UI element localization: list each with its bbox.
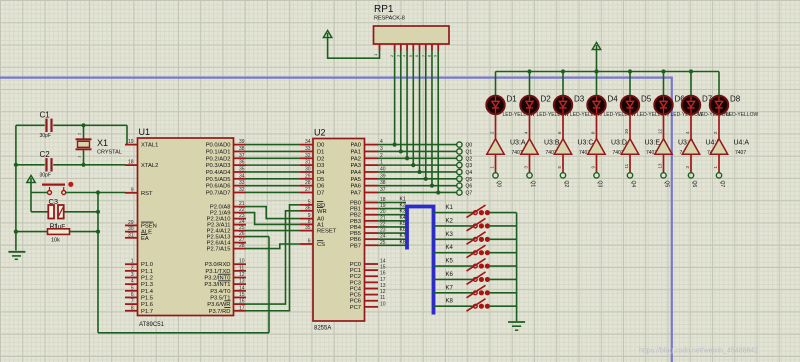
svg-text:D1: D1 xyxy=(507,95,518,104)
node Q6 terminal xyxy=(457,183,473,190)
node R1 junctions xyxy=(14,230,100,234)
svg-text:19: 19 xyxy=(128,139,134,145)
svg-text:P2.7/A15: P2.7/A15 xyxy=(207,247,231,253)
buffer U3:F 7407 xyxy=(655,114,693,172)
svg-text:U3:D: U3:D xyxy=(611,140,627,147)
svg-text:D3: D3 xyxy=(574,95,585,104)
buffer U3:A 7407 xyxy=(487,114,526,172)
svg-text:30: 30 xyxy=(305,166,311,172)
svg-text:39: 39 xyxy=(239,139,245,145)
crystal X1 xyxy=(76,125,122,165)
svg-text:P0.6/AD6: P0.6/AD6 xyxy=(206,184,231,190)
svg-text:2: 2 xyxy=(390,55,394,57)
node C2-X1 junction xyxy=(14,163,86,167)
svg-text:1: 1 xyxy=(713,166,718,169)
svg-text:P3.3/INT1: P3.3/INT1 xyxy=(204,282,230,288)
svg-text:U3:A: U3:A xyxy=(510,140,526,147)
wire C1 to XTAL1 xyxy=(126,125,128,144)
svg-text:A1: A1 xyxy=(317,222,324,228)
svg-text:12: 12 xyxy=(657,128,662,134)
svg-text:PC2: PC2 xyxy=(350,274,361,280)
svg-text:11: 11 xyxy=(239,265,244,271)
svg-text:C2: C2 xyxy=(40,150,51,159)
svg-text:Q0: Q0 xyxy=(495,181,501,188)
svg-text:RESET: RESET xyxy=(317,229,337,235)
svg-text:28: 28 xyxy=(305,180,311,186)
svg-text:P1.2: P1.2 xyxy=(141,276,153,282)
svg-text:XTAL1: XTAL1 xyxy=(141,143,158,149)
svg-text:17: 17 xyxy=(380,277,386,283)
svg-text:PB2: PB2 xyxy=(350,213,361,219)
node RST junction xyxy=(96,190,100,194)
svg-text:D5: D5 xyxy=(641,95,652,104)
svg-text:P1.3: P1.3 xyxy=(141,282,153,288)
svg-text:EA: EA xyxy=(141,236,149,242)
LED D7 xyxy=(682,72,731,118)
svg-text:PB0: PB0 xyxy=(350,201,361,207)
svg-text:https://blog.csdn.net/weixin_4: https://blog.csdn.net/weixin_45488842 xyxy=(639,348,758,355)
switch K5 xyxy=(434,259,517,272)
svg-text:PC1: PC1 xyxy=(350,268,361,274)
svg-text:PC3: PC3 xyxy=(350,280,361,286)
svg-text:PB4: PB4 xyxy=(350,225,362,231)
svg-text:14: 14 xyxy=(380,259,386,265)
svg-text:11: 11 xyxy=(380,295,385,301)
node Q1 output terminal xyxy=(527,173,536,188)
svg-text:U1: U1 xyxy=(139,127,151,137)
node Q1 terminal xyxy=(457,149,473,156)
svg-text:1: 1 xyxy=(77,155,82,158)
bus main horizontal+vertical xyxy=(0,78,672,362)
buffer U4:B 7407 xyxy=(682,114,721,172)
svg-text:Q5: Q5 xyxy=(466,177,473,183)
svg-text:6: 6 xyxy=(308,239,311,245)
svg-text:2: 2 xyxy=(713,131,718,134)
svg-text:K1: K1 xyxy=(446,205,454,211)
svg-text:5: 5 xyxy=(409,55,413,57)
svg-text:6: 6 xyxy=(131,292,134,298)
node Q5 output terminal xyxy=(661,173,670,188)
svg-text:38: 38 xyxy=(239,146,245,152)
node Q4 output terminal xyxy=(627,173,636,188)
node C1-X1 junction xyxy=(81,123,85,127)
svg-text:31: 31 xyxy=(305,160,311,166)
svg-text:30pF: 30pF xyxy=(40,133,51,139)
svg-text:37: 37 xyxy=(239,153,245,159)
svg-text:K6: K6 xyxy=(400,227,406,233)
svg-text:35: 35 xyxy=(239,166,245,172)
LED D5 xyxy=(621,72,670,118)
svg-text:P0.1/AD1: P0.1/AD1 xyxy=(206,149,231,155)
svg-text:U2: U2 xyxy=(314,128,326,138)
LED D4 xyxy=(587,72,636,118)
svg-text:RP1: RP1 xyxy=(374,4,394,15)
buffer U3:C 7407 xyxy=(554,114,593,172)
svg-text:8255A: 8255A xyxy=(314,326,331,332)
svg-text:K4: K4 xyxy=(446,245,454,251)
node Q4 terminal xyxy=(457,169,473,176)
buffer U3:E 7407 xyxy=(621,114,660,172)
svg-text:34: 34 xyxy=(305,139,311,145)
svg-text:K7: K7 xyxy=(446,285,454,291)
svg-text:10k: 10k xyxy=(51,238,60,244)
svg-text:9: 9 xyxy=(590,166,595,169)
svg-text:RST: RST xyxy=(141,191,153,197)
LED D2 xyxy=(520,72,569,118)
svg-text:16: 16 xyxy=(239,299,245,305)
svg-text:P0.2/AD2: P0.2/AD2 xyxy=(206,156,231,162)
wire P2.0 to A0 xyxy=(246,207,300,219)
power arrow RP1 xyxy=(323,31,379,59)
wire bottom rail xyxy=(98,237,269,333)
svg-text:PC6: PC6 xyxy=(350,299,361,305)
wire reset rail down xyxy=(97,193,99,333)
svg-text:7: 7 xyxy=(131,299,134,305)
svg-text:29: 29 xyxy=(305,173,311,179)
svg-text:P1.7: P1.7 xyxy=(141,309,153,315)
svg-text:K3: K3 xyxy=(400,209,406,215)
power arrow reset xyxy=(27,176,35,193)
svg-text:P3.0/RXD: P3.0/RXD xyxy=(205,262,231,268)
svg-text:7: 7 xyxy=(421,55,425,57)
svg-text:Q2: Q2 xyxy=(466,156,473,162)
svg-text:3: 3 xyxy=(523,166,528,169)
svg-text:K4: K4 xyxy=(400,215,406,221)
svg-text:K5: K5 xyxy=(446,259,454,265)
svg-text:D4: D4 xyxy=(608,95,619,104)
svg-text:2: 2 xyxy=(489,131,494,134)
svg-text:PB1: PB1 xyxy=(350,207,361,213)
LED D8 xyxy=(710,72,759,118)
svg-text:PA6: PA6 xyxy=(350,184,361,190)
svg-text:8: 8 xyxy=(590,131,595,134)
svg-text:2: 2 xyxy=(77,132,82,135)
svg-text:LED-YELLOW: LED-YELLOW xyxy=(726,112,759,118)
svg-text:K5: K5 xyxy=(400,221,406,227)
svg-text:XTAL2: XTAL2 xyxy=(141,163,158,169)
node Q2 output terminal xyxy=(560,173,569,188)
svg-text:Q1: Q1 xyxy=(466,149,473,155)
svg-text:18: 18 xyxy=(128,160,134,166)
node Q7 output terminal xyxy=(716,173,725,188)
svg-text:D8: D8 xyxy=(730,95,741,104)
svg-text:U3:B: U3:B xyxy=(544,140,560,147)
svg-text:8: 8 xyxy=(427,55,431,57)
svg-text:3: 3 xyxy=(396,55,400,57)
node C3 junction xyxy=(96,210,100,214)
svg-text:Q6: Q6 xyxy=(691,181,697,188)
svg-text:K6: K6 xyxy=(446,272,454,278)
capacitor C1 xyxy=(16,111,127,140)
svg-text:28: 28 xyxy=(239,243,245,249)
svg-text:P3.4/T0: P3.4/T0 xyxy=(210,289,230,295)
LED D6 xyxy=(654,72,703,118)
switch K6 xyxy=(434,272,517,285)
svg-text:3: 3 xyxy=(131,272,134,278)
svg-text:WR: WR xyxy=(317,209,327,215)
bus PB keys xyxy=(407,207,434,315)
svg-text:P0.3/AD3: P0.3/AD3 xyxy=(206,163,231,169)
buffer U4:A 7407 xyxy=(710,114,749,172)
svg-text:13: 13 xyxy=(239,279,245,285)
svg-text:Q1: Q1 xyxy=(529,181,535,188)
svg-text:P0.5/AD5: P0.5/AD5 xyxy=(206,177,231,183)
svg-text:13: 13 xyxy=(657,163,662,169)
svg-text:15: 15 xyxy=(239,292,245,298)
svg-text:K8: K8 xyxy=(446,299,454,305)
wire RD to P3.7 xyxy=(246,205,300,311)
svg-text:29: 29 xyxy=(128,220,134,226)
svg-text:33: 33 xyxy=(305,146,311,152)
svg-text:PA7: PA7 xyxy=(350,190,361,196)
svg-text:9: 9 xyxy=(434,55,438,57)
node Q3 output terminal xyxy=(594,173,603,188)
svg-text:D0: D0 xyxy=(317,143,324,149)
power arrow LEDs xyxy=(592,43,600,72)
wire LED anode bus xyxy=(496,71,720,73)
svg-text:RESPACK-8: RESPACK-8 xyxy=(374,16,405,22)
svg-text:K3: K3 xyxy=(446,232,454,238)
svg-text:2: 2 xyxy=(131,265,134,271)
buffer U3:B 7407 xyxy=(521,114,560,172)
svg-text:Q3: Q3 xyxy=(596,181,602,188)
wire left rail xyxy=(15,125,17,250)
svg-text:1: 1 xyxy=(373,53,378,56)
ground keys xyxy=(508,322,525,330)
svg-text:27: 27 xyxy=(305,187,311,193)
node Q7 terminal xyxy=(457,190,473,197)
svg-text:10: 10 xyxy=(624,128,629,134)
svg-text:AT89C51: AT89C51 xyxy=(139,322,165,328)
svg-text:K1: K1 xyxy=(400,197,406,203)
svg-text:K2: K2 xyxy=(400,203,406,209)
svg-text:D6: D6 xyxy=(317,184,324,190)
svg-text:12: 12 xyxy=(239,272,245,278)
svg-text:Q2: Q2 xyxy=(563,181,569,188)
svg-text:4: 4 xyxy=(403,55,407,57)
watermark xyxy=(639,348,758,355)
node Q6 output terminal xyxy=(688,173,697,188)
svg-text:30: 30 xyxy=(128,226,134,232)
svg-text:31: 31 xyxy=(128,232,134,238)
svg-text:D2: D2 xyxy=(317,156,324,162)
svg-text:Q6: Q6 xyxy=(466,184,473,190)
svg-text:32: 32 xyxy=(305,153,311,159)
svg-text:PA4: PA4 xyxy=(350,170,361,176)
wire arrow to C3 xyxy=(31,193,48,212)
svg-text:PC4: PC4 xyxy=(350,286,362,292)
svg-text:D4: D4 xyxy=(317,170,325,176)
node Q3 terminal xyxy=(457,162,473,169)
wire RP1 pullups staircase xyxy=(393,51,441,195)
svg-text:13: 13 xyxy=(380,283,386,289)
wire P2.4 to RESET xyxy=(246,230,300,232)
svg-text:PA1: PA1 xyxy=(350,149,361,155)
svg-text:34: 34 xyxy=(239,173,245,179)
svg-text:Q4: Q4 xyxy=(466,170,473,176)
svg-text:10: 10 xyxy=(239,259,245,265)
capacitor C2 xyxy=(16,150,125,179)
node Q5 terminal xyxy=(457,176,473,183)
svg-text:9: 9 xyxy=(131,187,134,193)
svg-text:PB5: PB5 xyxy=(350,231,361,237)
svg-text:5: 5 xyxy=(131,285,134,291)
wire P2.1 to A1 xyxy=(246,213,300,225)
svg-text:PA3: PA3 xyxy=(350,163,361,169)
svg-text:P1.1: P1.1 xyxy=(141,269,153,275)
svg-text:36: 36 xyxy=(239,160,245,166)
svg-text:1: 1 xyxy=(131,259,134,265)
svg-text:16: 16 xyxy=(380,271,386,277)
svg-text:D2: D2 xyxy=(541,95,552,104)
svg-text:U3:C: U3:C xyxy=(578,140,594,147)
svg-text:K8: K8 xyxy=(400,239,406,245)
switch K4 xyxy=(434,245,517,257)
svg-text:K7: K7 xyxy=(400,233,406,239)
svg-text:PA0: PA0 xyxy=(350,143,361,149)
svg-text:33: 33 xyxy=(239,180,245,186)
svg-text:4: 4 xyxy=(131,279,134,285)
switch K1 xyxy=(434,205,517,218)
svg-text:3: 3 xyxy=(685,166,690,169)
svg-text:6: 6 xyxy=(557,131,562,134)
wire PA to Q terminals xyxy=(378,145,457,193)
node Q2 terminal xyxy=(457,156,473,163)
svg-text:PA2: PA2 xyxy=(350,156,361,162)
switch K8 xyxy=(434,299,517,312)
wire data bus P0-D0..D7 xyxy=(246,145,300,193)
reset button xyxy=(31,182,125,195)
buffer U3:D 7407 xyxy=(588,114,627,172)
svg-text:30pF: 30pF xyxy=(40,173,51,179)
svg-text:15: 15 xyxy=(380,265,386,271)
node LED bus junctions xyxy=(527,69,693,73)
svg-text:P1.4: P1.4 xyxy=(141,289,154,295)
svg-text:17: 17 xyxy=(239,305,245,311)
svg-text:PC0: PC0 xyxy=(350,262,361,268)
svg-text:PSEN: PSEN xyxy=(141,223,157,229)
svg-text:Q5: Q5 xyxy=(663,181,669,188)
svg-text:PC7: PC7 xyxy=(350,305,361,311)
svg-text:U4:A: U4:A xyxy=(734,140,750,147)
svg-text:C1: C1 xyxy=(40,111,51,120)
svg-text:7407: 7407 xyxy=(735,150,746,156)
svg-text:X1: X1 xyxy=(97,138,108,148)
resistor R1 xyxy=(16,229,98,244)
switch K7 xyxy=(434,285,517,298)
svg-text:P1.5: P1.5 xyxy=(141,295,153,301)
svg-text:P0.7/AD7: P0.7/AD7 xyxy=(206,190,231,196)
svg-text:CRYSTAL: CRYSTAL xyxy=(97,150,122,156)
svg-text:36: 36 xyxy=(305,205,311,211)
svg-text:D3: D3 xyxy=(317,163,324,169)
IC U2 8255A xyxy=(300,128,386,332)
wire P2.5 down xyxy=(246,236,269,238)
IC U1 AT89C51 xyxy=(125,127,246,328)
wire PB0..PB7 to bus xyxy=(378,197,406,246)
svg-text:CS: CS xyxy=(317,242,325,248)
svg-text:C3: C3 xyxy=(49,197,59,206)
svg-text:5: 5 xyxy=(557,166,562,169)
node Q0 output terminal xyxy=(493,173,502,188)
svg-text:14: 14 xyxy=(239,285,245,291)
svg-text:Q0: Q0 xyxy=(466,143,473,149)
svg-text:11: 11 xyxy=(624,163,629,168)
svg-text:Q7: Q7 xyxy=(466,190,473,196)
resistor pack RP1 RESPACK-8 xyxy=(373,4,449,57)
svg-text:Q3: Q3 xyxy=(466,163,473,169)
svg-text:PB6: PB6 xyxy=(350,237,361,243)
svg-text:32: 32 xyxy=(239,187,245,193)
svg-text:PC5: PC5 xyxy=(350,293,361,299)
svg-text:PA5: PA5 xyxy=(350,177,361,183)
ground left xyxy=(8,252,25,259)
LED D3 xyxy=(554,72,603,118)
svg-text:K2: K2 xyxy=(446,218,454,224)
svg-text:1: 1 xyxy=(489,166,494,169)
svg-text:PB3: PB3 xyxy=(350,219,361,225)
svg-text:P0.4/AD4: P0.4/AD4 xyxy=(206,170,232,176)
svg-text:D5: D5 xyxy=(317,177,324,183)
svg-text:Q7: Q7 xyxy=(719,181,725,188)
switch K3 xyxy=(434,232,517,245)
switch K2 xyxy=(434,218,517,231)
svg-text:P1.6: P1.6 xyxy=(141,302,153,308)
LED D1 xyxy=(486,72,535,118)
svg-text:12: 12 xyxy=(380,289,386,295)
svg-text:4: 4 xyxy=(523,131,528,134)
capacitor C3 xyxy=(48,197,98,231)
svg-text:Q4: Q4 xyxy=(630,181,636,188)
svg-text:4: 4 xyxy=(685,131,690,134)
svg-text:D7: D7 xyxy=(317,190,324,196)
svg-text:PB7: PB7 xyxy=(350,243,361,249)
svg-text:6: 6 xyxy=(415,55,419,57)
svg-text:P0.0/AD0: P0.0/AD0 xyxy=(206,143,231,149)
svg-text:8: 8 xyxy=(308,219,311,225)
svg-text:8: 8 xyxy=(131,305,134,311)
wire keys ground rail xyxy=(516,213,518,321)
svg-text:U3:E: U3:E xyxy=(645,140,661,147)
svg-text:D1: D1 xyxy=(317,149,324,155)
wire WR to P3.6 xyxy=(246,211,300,304)
svg-text:35: 35 xyxy=(305,225,311,231)
node Q0 terminal xyxy=(457,142,473,149)
svg-text:P1.0: P1.0 xyxy=(141,262,153,268)
wire P2.7 to CS xyxy=(246,244,300,249)
svg-text:P3.7/RD: P3.7/RD xyxy=(209,309,231,315)
svg-text:10: 10 xyxy=(380,301,386,307)
